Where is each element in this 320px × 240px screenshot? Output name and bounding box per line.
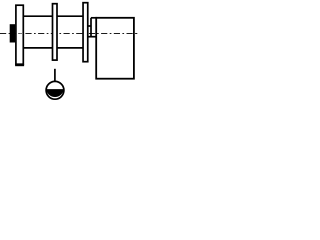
centerline (dash-dot axis) [0,33,139,35]
weight symbol: circle with filled lower half [46,81,64,99]
bearing block (solid) [10,24,16,42]
pulley/disc 2 [53,4,58,60]
hanger stem [54,69,56,83]
shaft upper line segment rect2-rect3 [57,15,83,17]
shaft stub end face [90,18,92,37]
housing top edge extension [91,17,97,19]
centerline segment inside housing [97,33,140,35]
pulley 1 thick bottom edge [15,64,24,66]
shaft stub lower line [87,36,96,38]
kinematic diagram: belt-pulley shaft with bearing block and chuck/housing [0,0,139,104]
shaft lower line segment rect2-rect3 [57,47,83,49]
shaft upper line segment rect1-rect2 [23,15,52,17]
centerline dashes inside pulley 1 [18,33,21,35]
shaft lower line segment rect1-rect2 [23,47,52,49]
shaft stub upper line [87,25,91,27]
pulley/disc 3 [83,3,88,62]
housing / chuck (big rectangle) [96,18,134,79]
pulley/disc 1 [16,5,23,64]
